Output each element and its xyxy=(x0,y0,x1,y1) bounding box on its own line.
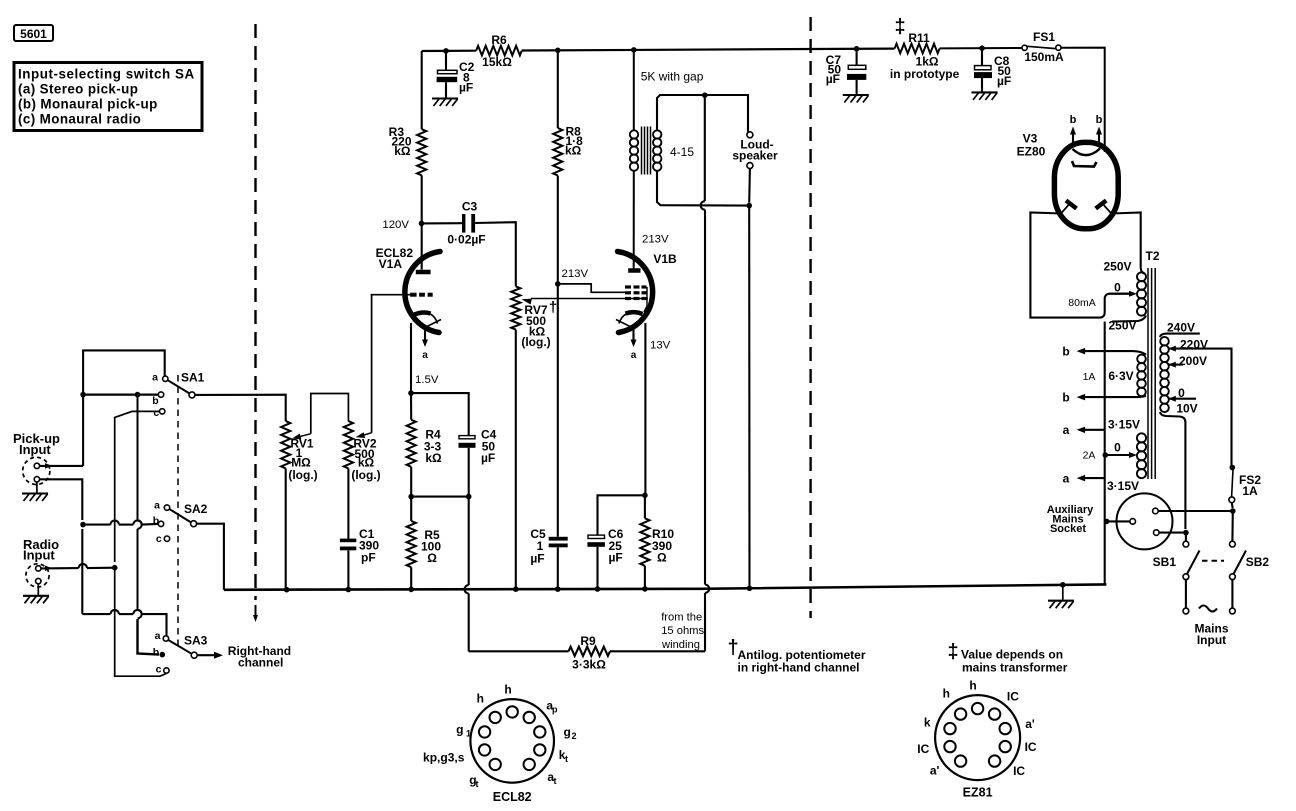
svg-text:ECL82: ECL82 xyxy=(493,790,532,804)
svg-text:1: 1 xyxy=(466,729,471,739)
node R5 bottom xyxy=(408,587,414,593)
wire V3 right plate to HT winding top xyxy=(1112,213,1144,274)
wire HT rail middle xyxy=(522,49,895,51)
label C5 value xyxy=(530,527,546,566)
wire speaker return to rail xyxy=(748,206,750,589)
V3 cathode bar xyxy=(1072,161,1097,167)
svg-text:kΩ: kΩ xyxy=(394,144,411,158)
V3 anode plates xyxy=(1061,201,1112,215)
wire 120V node to C3 xyxy=(422,222,463,224)
label RV2 value xyxy=(351,437,380,483)
svg-text:Ω: Ω xyxy=(657,551,667,565)
label RV7 value xyxy=(521,299,557,349)
svg-text:R9: R9 xyxy=(580,634,596,648)
wire screen feed to V1B g2 xyxy=(558,284,626,292)
loudspeaker terminals xyxy=(747,132,753,203)
svg-text:Input-selecting switch SA: Input-selecting switch SA xyxy=(18,67,195,82)
label C3 value xyxy=(447,200,485,247)
tube base diagram ECL82 xyxy=(423,683,571,805)
note value depends on xyxy=(947,641,1067,675)
svg-text:C3: C3 xyxy=(462,200,478,214)
svg-text:from the: from the xyxy=(661,612,702,624)
label R9 value xyxy=(572,634,606,672)
svg-text:SB2: SB2 xyxy=(1246,555,1270,569)
wire FS2 node to SB2 xyxy=(1231,511,1234,541)
svg-text:µF: µF xyxy=(481,451,495,465)
wire rail to R8 xyxy=(557,50,559,128)
svg-text:213V: 213V xyxy=(562,268,589,280)
resistor R8 xyxy=(553,128,562,176)
svg-text:SA2: SA2 xyxy=(184,502,208,516)
svg-text:(b) Monaural pick-up: (b) Monaural pick-up xyxy=(18,97,158,112)
T2 HT secondary winding 250-0-250 xyxy=(1137,272,1146,315)
svg-text:V3: V3 xyxy=(1023,132,1038,146)
svg-text:a': a' xyxy=(930,764,940,778)
capacitor C2 xyxy=(437,51,458,98)
svg-text:SB1: SB1 xyxy=(1153,555,1177,569)
heater lead V1B to a xyxy=(631,326,637,361)
svg-text:6·3V: 6·3V xyxy=(1108,369,1133,383)
potentiometer RV2 xyxy=(344,421,353,468)
svg-text:0: 0 xyxy=(1178,386,1185,400)
node speaker return at rail xyxy=(747,586,753,592)
svg-text:a: a xyxy=(152,372,158,384)
resistor R3 xyxy=(417,129,426,175)
svg-text:mains transformer: mains transformer xyxy=(962,661,1068,675)
tube V3 EZ80 envelope xyxy=(1054,142,1118,228)
svg-text:k: k xyxy=(924,716,931,730)
svg-text:EZ81: EZ81 xyxy=(963,786,993,800)
svg-text:b: b xyxy=(152,395,158,407)
label C7 value xyxy=(826,53,842,86)
capacitor C1 xyxy=(340,539,356,590)
svg-text:R11: R11 xyxy=(908,31,930,45)
channel separator dashed line right xyxy=(809,17,811,618)
svg-text:channel: channel xyxy=(238,656,283,670)
tap arrow a top xyxy=(1063,423,1105,437)
label 2A xyxy=(1083,450,1096,462)
svg-text:3·15V: 3·15V xyxy=(1107,479,1139,493)
svg-text:0: 0 xyxy=(1114,441,1121,455)
node R10 bottom xyxy=(642,586,648,592)
channel separator dashed line left xyxy=(253,24,258,622)
label 0 2A tap xyxy=(1114,441,1121,455)
svg-text:IC: IC xyxy=(1013,764,1025,778)
label R6 xyxy=(482,33,512,69)
label 1A xyxy=(1083,371,1096,383)
tap 220V xyxy=(1168,346,1231,466)
svg-text:b: b xyxy=(1070,114,1077,126)
wire T2 left bus xyxy=(1104,322,1106,585)
svg-text:t: t xyxy=(554,776,557,786)
jack pick-up input xyxy=(23,457,50,484)
resistor R9 xyxy=(569,647,611,656)
wire V1B cathode down xyxy=(644,323,646,495)
node C4 bottom xyxy=(466,494,472,500)
label 213V at R8 xyxy=(562,268,589,280)
node 120V junction xyxy=(419,221,425,227)
wire 6.3V bottom lead xyxy=(1105,396,1146,397)
capacitor C5 xyxy=(549,537,568,589)
label R4 value xyxy=(424,428,442,465)
label Auxiliary Mains Socket xyxy=(1047,504,1094,535)
svg-text:kΩ: kΩ xyxy=(425,451,442,465)
label R3 value xyxy=(389,125,412,158)
label R11 value xyxy=(890,31,960,81)
tube base diagram EZ81 xyxy=(917,679,1037,800)
wire FS1 to V3 anode top xyxy=(1061,48,1105,152)
wire pick-up bottom terminal xyxy=(40,479,83,520)
fuse FS1 xyxy=(1022,30,1064,64)
svg-text:R6: R6 xyxy=(491,33,507,47)
label 3-15V top xyxy=(1108,418,1140,432)
svg-text:µF: µF xyxy=(609,551,623,565)
wire SA1 pole to RV1 xyxy=(195,395,286,421)
svg-text:winding: winding xyxy=(661,639,700,651)
g3 internal link V1B xyxy=(644,287,647,312)
resistor R5 xyxy=(407,521,416,567)
subscript labels ECL82 xyxy=(466,705,577,790)
node rail ground xyxy=(1060,582,1066,588)
tap 200V xyxy=(1168,362,1183,368)
svg-text:SA1: SA1 xyxy=(181,371,205,385)
svg-text:15kΩ: 15kΩ xyxy=(482,55,512,69)
node 1.5V junction xyxy=(408,390,414,396)
wire radio line down to SA3 c xyxy=(115,568,167,677)
switch SB1 xyxy=(1153,541,1200,579)
mains input terminals xyxy=(1183,608,1235,614)
wire HT rail right of R11 xyxy=(940,47,1022,49)
tube V1A ECL82 envelope xyxy=(405,252,440,333)
svg-text:2A: 2A xyxy=(1083,450,1096,462)
svg-text:h: h xyxy=(943,687,950,701)
svg-text:0·02µF: 0·02µF xyxy=(447,233,485,247)
svg-text:a: a xyxy=(422,350,428,361)
resistor R6 xyxy=(476,46,522,56)
jack radio input xyxy=(26,564,49,587)
svg-text:kΩ: kΩ xyxy=(565,144,582,158)
wire pick-up top terminal xyxy=(40,463,84,469)
capacitor C8 xyxy=(974,48,992,91)
switch gang linkage SA1-SA2-SA3 xyxy=(177,375,179,650)
wiper arrow RV7 to V1B g1 xyxy=(522,299,649,305)
svg-text:FS1: FS1 xyxy=(1033,30,1055,44)
tap arrow b bottom xyxy=(1062,391,1104,405)
label V3 EZ80 xyxy=(1017,132,1046,159)
svg-text:µF: µF xyxy=(826,72,840,86)
svg-text:h: h xyxy=(969,679,976,693)
T2 heater winding 3.15-0-3.15 xyxy=(1137,433,1146,478)
node b line branch xyxy=(135,392,141,398)
V3 filament arc xyxy=(1073,149,1101,156)
label T2 xyxy=(1145,249,1159,263)
wire OT primary to V1B anode xyxy=(633,171,635,269)
svg-text:(c) Monaural radio: (c) Monaural radio xyxy=(18,112,141,127)
svg-text:13V: 13V xyxy=(650,340,671,352)
svg-text:213V: 213V xyxy=(642,234,669,246)
label HT tap line 0 xyxy=(1109,293,1131,295)
label RV1 value xyxy=(288,437,317,483)
svg-text:c: c xyxy=(156,664,162,676)
wire RV2 to C1 xyxy=(347,468,349,538)
label FS2 1A xyxy=(1239,473,1261,498)
V3 heater leads b b xyxy=(1070,114,1103,143)
wire 10V lead to SB1 xyxy=(1185,533,1187,542)
svg-text:(log.): (log.) xyxy=(521,335,550,349)
node secondary top tap xyxy=(702,92,708,98)
wire C4 junction down to R9 (hops rail) xyxy=(465,497,469,652)
svg-text:t: t xyxy=(476,779,479,789)
anode plate V1B xyxy=(628,268,640,273)
svg-text:(log.): (log.) xyxy=(288,468,317,482)
svg-text:T2: T2 xyxy=(1145,249,1159,263)
resistor R4 xyxy=(407,420,416,467)
transformer T2 core xyxy=(1148,268,1155,479)
resistor R11 xyxy=(895,44,940,54)
node FS2 to socket xyxy=(1230,508,1236,514)
node HT rail / R8 xyxy=(555,48,561,54)
svg-text:150mA: 150mA xyxy=(1024,50,1064,64)
wire R9 right from 15 ohm winding xyxy=(610,210,709,652)
wire SB1 to mains terminal xyxy=(1185,580,1187,609)
wire C3 to RV7 top xyxy=(475,222,516,286)
label 220V xyxy=(1180,338,1208,352)
svg-text:EZ80: EZ80 xyxy=(1017,145,1046,159)
node RV1 bottom xyxy=(284,587,290,593)
node HT rail / C2 xyxy=(443,48,449,54)
svg-text:5K with gap: 5K with gap xyxy=(641,70,704,84)
anode plate V1A xyxy=(416,270,431,275)
svg-text:speaker: speaker xyxy=(732,149,778,163)
gang dashes SB1-SB2 xyxy=(1202,560,1224,562)
wire R10 to rail xyxy=(644,566,646,589)
tap arrow a bottom xyxy=(1063,471,1105,485)
tap 0 mains xyxy=(1168,396,1196,402)
label 0 HT tap xyxy=(1114,281,1121,295)
wire rail corner to R3 xyxy=(421,51,423,129)
node radio / SA1c-SA3c line xyxy=(112,565,118,571)
potentiometer RV7 xyxy=(511,286,520,329)
tap arrow b top xyxy=(1062,345,1104,359)
resistor R10 xyxy=(640,518,649,566)
svg-text:250V: 250V xyxy=(1103,260,1131,274)
svg-text:b: b xyxy=(1096,114,1103,126)
wire 10V lead xyxy=(1160,412,1185,529)
wire rail to OT primary xyxy=(633,50,635,131)
capacitor C4 xyxy=(459,436,476,448)
wire main bottom rail xyxy=(224,584,1107,589)
svg-text:IC: IC xyxy=(917,742,929,756)
wire pick-up top to SA1a loop xyxy=(83,350,165,466)
wire R8 to 213V node xyxy=(557,176,559,284)
svg-text:IC: IC xyxy=(1007,690,1019,704)
wire secondary bottom xyxy=(657,170,749,205)
label 10V xyxy=(1176,402,1197,416)
svg-text:Input: Input xyxy=(1197,633,1226,647)
svg-text:c: c xyxy=(156,533,162,545)
label 5601 box xyxy=(14,25,53,41)
label C1 value xyxy=(359,527,379,565)
label 5K with gap xyxy=(641,70,704,84)
grid rows V1B xyxy=(625,287,647,299)
svg-text:a: a xyxy=(631,350,637,361)
wire HT winding bottom curl xyxy=(1112,316,1146,322)
svg-text:(log.): (log.) xyxy=(351,468,380,482)
label 4-15 xyxy=(670,145,694,159)
cathode V1B xyxy=(616,312,644,326)
svg-text:pF: pF xyxy=(361,551,376,565)
transformer T1 secondary winding xyxy=(653,130,661,171)
label 6-3V xyxy=(1108,369,1133,383)
label C6 value xyxy=(608,527,624,565)
transformer T1 core xyxy=(642,127,651,175)
label Radio Input xyxy=(23,537,59,563)
wire R9 left xyxy=(469,650,569,652)
wire 6.3V top lead xyxy=(1105,351,1146,355)
label Right-hand channel xyxy=(228,644,291,670)
svg-text:kp,g3,s: kp,g3,s xyxy=(423,751,465,765)
svg-text:b: b xyxy=(1062,391,1069,405)
svg-text:80mA: 80mA xyxy=(1068,297,1095,309)
svg-text:p: p xyxy=(552,705,558,715)
wire SA2 pole to bottom rail xyxy=(197,524,224,590)
ground at pick-up xyxy=(22,482,48,501)
label 13V xyxy=(650,340,671,352)
svg-text:‡: ‡ xyxy=(894,16,905,38)
svg-text:Input: Input xyxy=(19,442,51,457)
heater lead V1A to a xyxy=(422,326,428,361)
svg-text:b: b xyxy=(1062,345,1069,359)
label from the 15 ohms winding xyxy=(661,612,705,652)
T2 heater winding 6.3V xyxy=(1137,355,1146,397)
svg-text:†: † xyxy=(549,299,557,316)
ground at bottom rail xyxy=(1048,585,1074,608)
svg-text:3·15V: 3·15V xyxy=(1108,418,1140,432)
fuse FS2 xyxy=(1229,465,1235,508)
svg-text:120V: 120V xyxy=(382,219,409,231)
note antilog potentiometer xyxy=(727,637,865,675)
wire secondary top to speaker xyxy=(657,95,748,132)
label 200V xyxy=(1179,354,1207,368)
node V1B cathode junction xyxy=(642,493,648,499)
svg-text:t: t xyxy=(565,754,568,764)
svg-text:V1B: V1B xyxy=(653,252,677,266)
capacitor C6 xyxy=(587,535,605,589)
label 3-15V bottom xyxy=(1107,479,1139,493)
wire V3 left plate to HT winding centre loop xyxy=(1030,213,1137,318)
wire b branch down to SA3 b xyxy=(138,395,160,655)
svg-text:g: g xyxy=(456,723,463,737)
svg-text:b: b xyxy=(153,647,159,659)
label Loud-speaker xyxy=(732,138,778,163)
svg-text:1A: 1A xyxy=(1083,371,1096,383)
ac symbol xyxy=(1199,606,1217,612)
grid V1A xyxy=(371,294,433,296)
wire SA1 c lead xyxy=(115,411,160,562)
wire V1A cathode to 1.5V node xyxy=(410,323,412,393)
svg-text:a: a xyxy=(155,630,161,642)
node HT rail / C7 xyxy=(854,46,860,52)
svg-text:IC: IC xyxy=(1025,740,1037,754)
wire RV1 to rail xyxy=(285,468,287,589)
svg-text:2: 2 xyxy=(572,731,577,741)
svg-text:µF: µF xyxy=(530,552,544,566)
label 80mA xyxy=(1068,297,1095,309)
wire V1A anode lead xyxy=(421,223,423,269)
wire 1.5V to C4 xyxy=(411,393,469,436)
switch SB2 xyxy=(1230,541,1270,579)
svg-text:in prototype: in prototype xyxy=(890,67,960,81)
label 250V top xyxy=(1103,260,1131,274)
node pick-up bottom branch xyxy=(80,522,86,528)
wire R5 to rail xyxy=(410,567,412,589)
svg-text:µF: µF xyxy=(997,74,1011,88)
label 1.5V xyxy=(415,374,439,386)
svg-text:c: c xyxy=(153,407,159,419)
label 240V xyxy=(1167,321,1195,335)
label R8 value xyxy=(565,125,583,158)
wire socket bottom pin xyxy=(1159,530,1189,536)
svg-text:‡: ‡ xyxy=(947,641,958,663)
svg-text:a': a' xyxy=(1025,717,1035,731)
transformer T1 primary winding xyxy=(630,130,638,171)
label R5 value xyxy=(421,528,441,565)
wiper RV2 to V1A grid xyxy=(356,295,372,438)
svg-text:0: 0 xyxy=(1114,281,1121,295)
node HT rail / OT primary xyxy=(631,47,637,53)
svg-text:4-15: 4-15 xyxy=(670,145,694,159)
double-dagger mark at R11 xyxy=(894,16,905,38)
capacitor C7 xyxy=(847,49,866,94)
wire socket left pin to bus xyxy=(1104,519,1130,525)
label Pick-up Input xyxy=(13,431,60,457)
wire cathode junction to C6 xyxy=(598,495,645,535)
switch SA1 xyxy=(152,371,205,420)
ground at C8 xyxy=(972,92,998,100)
node C1 bottom xyxy=(346,587,352,593)
svg-text:10V: 10V xyxy=(1176,402,1197,416)
switch SA3 xyxy=(153,630,208,676)
ground at C2 xyxy=(432,99,458,107)
node C6 bottom xyxy=(595,586,601,592)
tube V1B ECL82 envelope xyxy=(618,252,653,333)
wire socket top pin to FS2 node xyxy=(1158,510,1233,512)
svg-text:(a) Stereo pick-up: (a) Stereo pick-up xyxy=(18,82,138,97)
capacitor C3 xyxy=(462,214,475,233)
socket auxiliary mains xyxy=(1117,493,1173,549)
label C2 value xyxy=(459,60,475,95)
potentiometer RV1 xyxy=(281,421,290,468)
label 0 mains tap xyxy=(1178,386,1185,400)
wire R3 to V1A anode xyxy=(421,175,423,223)
svg-text:h: h xyxy=(504,683,511,697)
label Mains Input xyxy=(1194,622,1228,648)
wire SA3 pole arrow right-hand channel xyxy=(197,652,223,659)
svg-text:g: g xyxy=(563,725,570,739)
svg-text:15 ohms: 15 ohms xyxy=(661,625,704,637)
svg-text:200V: 200V xyxy=(1179,354,1207,368)
label C4 value xyxy=(481,428,497,465)
wire radio top terminal xyxy=(41,564,115,571)
note box input-selecting switch SA xyxy=(14,63,202,131)
label R10 value xyxy=(652,527,674,565)
svg-text:220V: 220V xyxy=(1180,338,1208,352)
label 213V at V1B anode xyxy=(642,234,669,246)
node pick-up top / SA1 b line xyxy=(80,392,86,398)
node R4 bottom xyxy=(408,494,414,500)
node HT rail / C8 xyxy=(979,45,985,51)
wire R4 C4 junction line xyxy=(411,448,469,497)
